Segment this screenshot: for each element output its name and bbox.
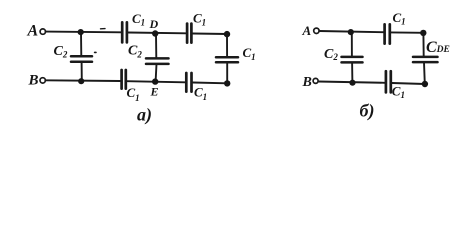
capacitor C1 top-right plates: [186, 24, 189, 43]
capacitor C2 branch wires (circuit b): [351, 32, 353, 57]
node top-right (circuit b): [420, 30, 426, 36]
svg-text:C1: C1: [243, 45, 256, 62]
svg-text:C1: C1: [392, 83, 405, 100]
svg-text:C2: C2: [128, 44, 142, 60]
wire bottom rail b segment 2: [392, 83, 425, 84]
terminal B (circuit a): [40, 78, 45, 83]
node bottom-right (circuit a): [224, 80, 230, 86]
wire top rail b segment 2: [391, 31, 423, 33]
svg-text:C1: C1: [193, 11, 206, 28]
capacitor C1 bottom plates (circuit b): [385, 71, 388, 92]
wire top rail b segment 1: [319, 31, 383, 32]
wire top rail a segment 2: [128, 32, 185, 35]
wire top rail a segment 1: [46, 31, 121, 34]
svg-text:A: A: [27, 23, 39, 40]
svg-text:а): а): [137, 105, 152, 126]
node J2: [78, 78, 84, 84]
terminal A (circuit a): [40, 29, 45, 34]
capacitor C2 left plates: [71, 55, 92, 58]
terminal A (circuit b): [314, 28, 319, 33]
capacitor C2 left branch wires: [80, 32, 82, 56]
wire bottom rail a segment 1: [45, 79, 120, 82]
capacitor C1 top plates (circuit b): [383, 24, 386, 43]
svg-text:E: E: [150, 85, 159, 99]
svg-text:B: B: [28, 73, 39, 89]
node bottom-left (circuit b): [349, 80, 355, 86]
svg-text:C1: C1: [132, 11, 145, 28]
capacitor C1 bottom-left plates: [120, 70, 123, 89]
stray dash artifact: [101, 28, 106, 30]
node top-right (circuit a): [224, 31, 230, 37]
wire top rail a segment 3: [193, 33, 227, 36]
node top-left (circuit b): [348, 29, 354, 35]
wire bottom rail a segment 2: [127, 81, 185, 82]
svg-text:C2: C2: [54, 44, 68, 60]
wire bottom rail a segment 3: [193, 82, 227, 85]
svg-text:C2: C2: [324, 47, 338, 62]
wire bottom rail b segment 1: [318, 82, 384, 83]
node J1: [78, 29, 84, 35]
node bottom-right (circuit b): [422, 81, 428, 87]
svg-text:C1: C1: [393, 10, 406, 27]
svg-text:D: D: [149, 17, 159, 31]
svg-text:A: A: [302, 23, 312, 38]
capacitor C1 right plates: [216, 56, 238, 59]
capacitor C2 middle plates: [146, 57, 169, 60]
svg-text:C1: C1: [127, 85, 140, 103]
capacitor C2 middle branch wires: [155, 33, 157, 58]
capacitor C1 right branch wires: [226, 34, 228, 57]
stray ink dot artifact: [95, 51, 96, 53]
svg-text:C1: C1: [194, 85, 207, 102]
capacitor C2 plates (circuit b): [342, 56, 363, 59]
svg-text:CDE: CDE: [426, 39, 450, 56]
svg-text:B: B: [302, 75, 312, 90]
node E: [152, 78, 158, 84]
capacitor CDE plates (circuit b): [413, 56, 438, 59]
svg-text:б): б): [360, 101, 375, 122]
terminal B (circuit b): [313, 78, 318, 83]
capacitor CDE branch wires (circuit b): [422, 33, 424, 57]
node D: [152, 30, 158, 36]
capacitor C1 top-left plates: [121, 22, 124, 42]
capacitor C1 bottom-right plates: [185, 73, 188, 92]
